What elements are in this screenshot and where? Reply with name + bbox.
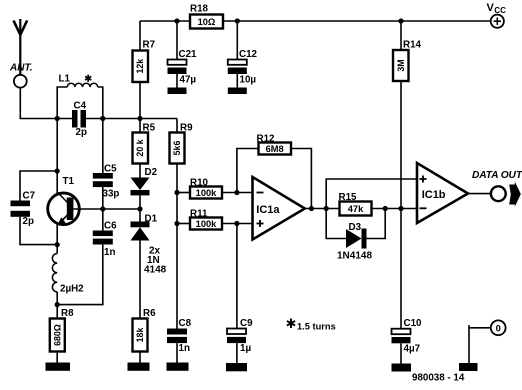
wire to IC1b plus: [326, 179, 417, 209]
svg-text:IC1a: IC1a: [256, 204, 280, 216]
wire R11 left: [177, 223, 190, 225]
svg-text:C12: C12: [239, 49, 258, 60]
op-amp IC1a: [253, 177, 305, 240]
wire C8 to ground: [176, 343, 178, 362]
svg-text:6M8: 6M8: [266, 144, 284, 154]
wire R11 right: [222, 223, 253, 225]
svg-text:R7: R7: [143, 40, 156, 51]
svg-text:R8: R8: [61, 308, 74, 319]
resistor R15: [340, 202, 372, 216]
wire R14 drop: [400, 21, 402, 209]
svg-text:2p: 2p: [76, 127, 87, 138]
resistor R18: [190, 15, 223, 29]
svg-text:1n: 1n: [104, 247, 115, 258]
wire C5 bottom to base wire: [102, 187, 104, 209]
transistor T1: [48, 192, 80, 245]
capacitor C8: [167, 329, 187, 344]
resistor R10: [190, 187, 222, 199]
svg-text:0: 0: [496, 323, 501, 333]
wire antenna to main node: [20, 88, 72, 119]
svg-text:18k: 18k: [135, 328, 145, 343]
svg-text:C5: C5: [104, 163, 117, 174]
svg-text:T1: T1: [63, 176, 75, 187]
svg-text:R12: R12: [257, 133, 276, 144]
asterisk L1: [85, 75, 91, 82]
diode D2: [131, 178, 150, 196]
svg-text:R6: R6: [143, 308, 156, 319]
ground R6: [128, 363, 150, 371]
note 1.5 turns: [287, 319, 336, 332]
wire R7 top: [139, 21, 141, 51]
wire R15 right to IC1b: [372, 208, 418, 210]
wire C21 drop: [176, 21, 178, 88]
wire D2 to base node: [139, 195, 141, 221]
svg-text:IC1b: IC1b: [422, 189, 446, 201]
svg-text:4148: 4148: [144, 264, 167, 275]
svg-text:C6: C6: [104, 220, 117, 231]
svg-text:DATA OUT: DATA OUT: [472, 170, 522, 181]
0 terminal: [491, 320, 506, 335]
resistor R12: [259, 143, 292, 155]
svg-text:1N4148: 1N4148: [337, 250, 372, 261]
top rail: [140, 20, 491, 22]
capacitor C10: [392, 329, 411, 344]
svg-text:D3: D3: [349, 222, 362, 233]
svg-text:47µ: 47µ: [180, 75, 197, 86]
DATA OUT terminal: [491, 186, 506, 201]
svg-text:47k: 47k: [348, 204, 364, 214]
ground C12: [228, 88, 247, 95]
svg-text:C10: C10: [404, 318, 423, 329]
svg-text:10µ: 10µ: [240, 75, 257, 86]
capacitor C12: [228, 60, 247, 75]
svg-text:R9: R9: [180, 123, 193, 134]
svg-text:C21: C21: [179, 49, 198, 60]
svg-text:V: V: [487, 2, 495, 14]
ground C21: [168, 88, 187, 95]
junction node dots: [55, 18, 404, 307]
svg-text:33p: 33p: [103, 189, 120, 200]
svg-text:ANT.: ANT.: [9, 63, 33, 74]
D1 D2 type note: [144, 246, 167, 276]
capacitor C4: [72, 110, 86, 128]
svg-text:100k: 100k: [196, 219, 218, 229]
svg-text:980038 - 14: 980038 - 14: [412, 372, 465, 383]
wire D3 bypass: [326, 209, 385, 239]
wire C10 to ground: [400, 343, 402, 363]
ground C10: [392, 364, 412, 372]
wire R9 top: [176, 119, 178, 133]
wire R7 bottom: [139, 82, 141, 119]
svg-text:D2: D2: [145, 167, 158, 178]
wire C4 right to R9 corner: [86, 118, 177, 120]
svg-text:CC: CC: [494, 6, 506, 15]
svg-text:R11: R11: [190, 208, 208, 219]
VCC label: [487, 2, 507, 15]
svg-text:2µH2: 2µH2: [60, 284, 84, 295]
svg-text:5k6: 5k6: [172, 141, 182, 156]
capacitor C21: [168, 60, 187, 75]
resistor R5: [133, 133, 149, 164]
svg-text:680Ω: 680Ω: [52, 324, 62, 346]
resistor R9: [170, 133, 185, 164]
svg-text:4µ7: 4µ7: [404, 343, 421, 354]
svg-text:R10: R10: [190, 178, 209, 189]
svg-text:C4: C4: [74, 101, 87, 112]
wire IC1b out: [468, 193, 491, 195]
svg-text:12k: 12k: [135, 59, 145, 74]
capacitor C7: [11, 201, 31, 217]
wire collector drop: [56, 119, 58, 195]
capacitor C6: [93, 231, 113, 245]
resistor R7: [133, 51, 149, 83]
wire 0 terminal to ground: [469, 328, 491, 363]
antenna: [14, 19, 28, 75]
wire R5 top: [139, 119, 141, 133]
wire C7 branch: [20, 171, 57, 245]
svg-text:C8: C8: [179, 318, 192, 329]
wire C6 top: [102, 209, 104, 231]
ground 0 terminal: [459, 363, 478, 371]
DATA OUT arrow: [509, 182, 521, 207]
wire bottom link to C6: [57, 245, 103, 305]
wire R5 to D2: [139, 164, 141, 178]
svg-text:C7: C7: [23, 190, 36, 201]
svg-text:3M: 3M: [396, 59, 406, 71]
diode D1: [131, 222, 150, 241]
wire R6 to ground: [139, 352, 141, 363]
inductor L1: [57, 83, 103, 118]
svg-text:R15: R15: [339, 192, 358, 203]
wire C10 branch: [400, 209, 402, 329]
svg-text:D1: D1: [145, 213, 158, 224]
svg-text:20 k: 20 k: [135, 139, 145, 156]
resistor R6: [133, 319, 148, 352]
ground R8: [46, 363, 71, 371]
wire C9 branch: [236, 224, 238, 329]
resistor R14: [393, 50, 409, 81]
antenna terminal: [14, 75, 27, 88]
wire D1 to R6: [139, 241, 141, 319]
svg-text:2p: 2p: [23, 216, 34, 227]
wire C9 to ground: [236, 343, 238, 363]
wire R10 left: [177, 192, 190, 194]
capacitor C5: [93, 173, 113, 187]
svg-text:1.5 turns: 1.5 turns: [297, 322, 336, 332]
resistor R11: [190, 218, 222, 230]
svg-text:1µ: 1µ: [240, 343, 251, 354]
tick at corner: [468, 325, 470, 328]
wire C12 drop: [236, 21, 238, 88]
ground C8: [167, 363, 189, 371]
capacitor C9: [227, 329, 246, 344]
op-amp IC1b: [417, 163, 468, 223]
wire R12 loop: [237, 149, 312, 209]
wire R10 right: [222, 192, 253, 194]
wire C5 top: [102, 119, 104, 174]
svg-text:R5: R5: [143, 123, 156, 134]
wire IC1a out: [305, 208, 340, 210]
svg-text:R18: R18: [190, 3, 209, 14]
resistor R8: [50, 305, 65, 363]
svg-text:R14: R14: [403, 40, 422, 51]
ground C9: [226, 363, 247, 371]
svg-text:L1: L1: [59, 74, 71, 85]
svg-text:1n: 1n: [179, 343, 190, 354]
svg-text:C9: C9: [240, 318, 253, 329]
svg-text:100k: 100k: [196, 188, 218, 198]
base wire: [73, 208, 140, 210]
VCC terminal: [491, 15, 504, 28]
wire R9 down to C8: [176, 164, 178, 329]
svg-text:10Ω: 10Ω: [198, 17, 216, 27]
inductor 2uH2: [52, 245, 57, 305]
diode D3: [346, 229, 367, 249]
